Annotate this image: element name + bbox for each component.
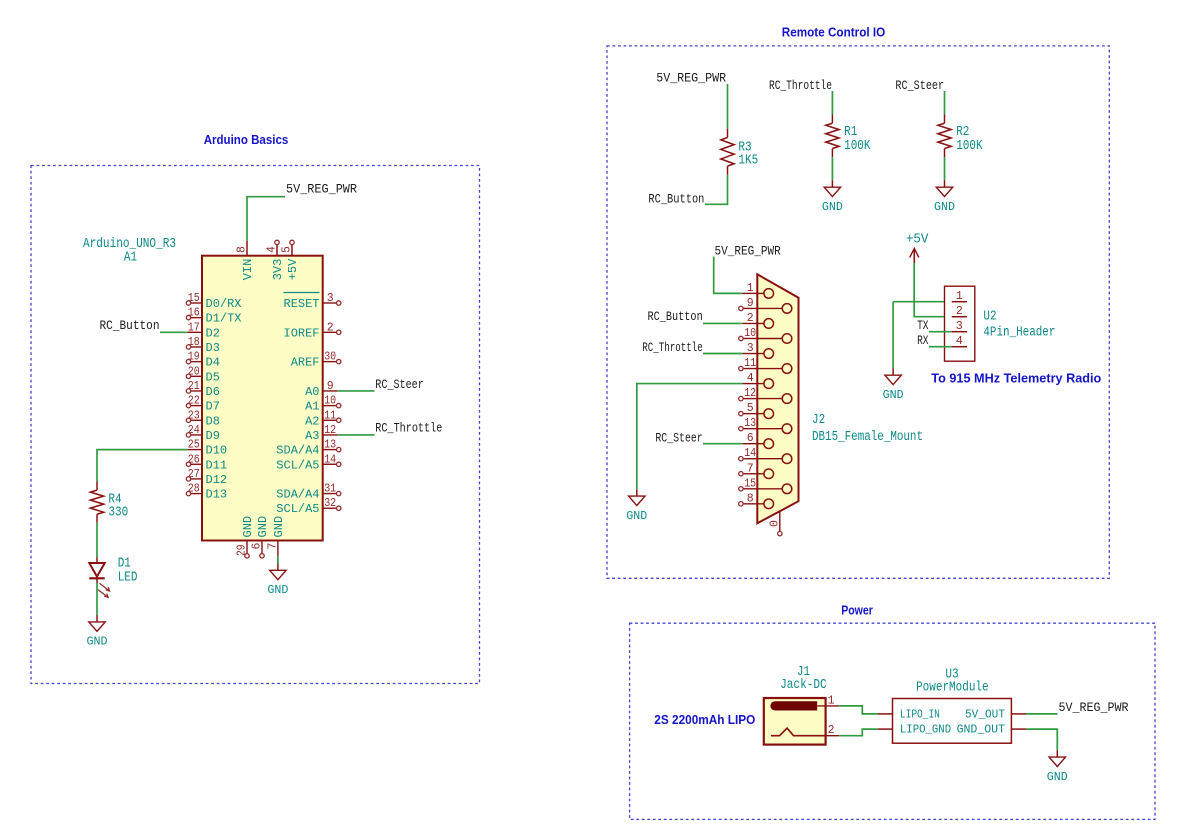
svg-text:GND: GND [934, 201, 955, 214]
svg-text:26: 26 [188, 453, 200, 466]
svg-text:3: 3 [747, 342, 754, 355]
connector J1 Jack-DC body [764, 698, 826, 745]
svg-text:Arduino Basics: Arduino Basics [204, 132, 289, 147]
svg-text:D7: D7 [206, 400, 220, 414]
power +5V symbol [906, 233, 929, 264]
ground [822, 180, 843, 214]
svg-text:+5V: +5V [906, 233, 929, 248]
svg-text:LIPO_GND: LIPO_GND [900, 723, 951, 737]
ground [1047, 750, 1068, 784]
section title: Arduino Basics [204, 132, 289, 147]
svg-text:D11: D11 [206, 458, 228, 472]
pin 9 A0 (right) [305, 380, 338, 399]
svg-text:2S 2200mAh LIPO: 2S 2200mAh LIPO [654, 712, 755, 727]
connector J2 pin 8 [739, 492, 774, 508]
svg-text:D10: D10 [206, 444, 228, 458]
module U3 value PowerModule [916, 681, 989, 696]
pin 16 D1/TX (left) [186, 307, 241, 326]
svg-text:RX: RX [917, 334, 929, 348]
svg-text:GND: GND [1047, 771, 1068, 784]
svg-text:GND: GND [87, 636, 108, 649]
pin 22 D7 (left) [186, 395, 220, 414]
pin 11 A2 (right) [305, 409, 341, 428]
svg-text:GND: GND [626, 510, 647, 523]
wire [839, 729, 878, 736]
label TX [917, 319, 929, 333]
svg-text:4: 4 [747, 372, 754, 385]
svg-text:100K: 100K [844, 139, 871, 154]
pin 20 D5 (left) [186, 365, 220, 384]
pin 12 A3 (right) [305, 424, 338, 443]
connector U2 pin 2 [952, 305, 967, 318]
connector U2 4Pin_Header body [945, 286, 975, 361]
pin 14 SCL/A5 (right) [276, 453, 341, 472]
svg-text:PowerModule: PowerModule [916, 681, 989, 696]
svg-text:2: 2 [828, 724, 835, 737]
op-amp U1 style body: Arduino A1 rectangle [202, 256, 323, 541]
wire [703, 443, 742, 445]
svg-text:DB15_Female_Mount: DB15_Female_Mount [812, 430, 923, 445]
diode D1 LED [89, 557, 109, 597]
connector J2 pin 13 [739, 417, 792, 433]
dashed group box: Arduino Basics [31, 166, 480, 684]
connector J2 value DB15_Female_Mount [812, 430, 923, 445]
label 5V_REG_PWR [1059, 701, 1129, 715]
ground [626, 489, 647, 523]
svg-text:2: 2 [747, 312, 754, 325]
svg-text:U2: U2 [983, 310, 996, 325]
svg-text:14: 14 [324, 453, 336, 466]
ground [87, 615, 108, 649]
wire [338, 390, 375, 392]
pin 32 SCL/A5 (right) [276, 497, 341, 516]
svg-text:SCL/A5: SCL/A5 [276, 502, 319, 516]
label RC_Button [648, 310, 703, 324]
svg-text:18: 18 [188, 336, 200, 349]
svg-text:6: 6 [251, 543, 264, 550]
svg-text:RC_Throttle: RC_Throttle [642, 341, 702, 355]
svg-text:IOREF: IOREF [284, 326, 320, 340]
resistor R2 [938, 115, 951, 158]
pin name VIN [241, 259, 255, 281]
pin 13 SDA/A4 (right) [276, 439, 341, 458]
connector J2 pin 12 [739, 387, 792, 403]
connector U2 pin 4 [952, 335, 967, 348]
svg-text:VIN: VIN [241, 259, 255, 281]
section title: Power [841, 603, 873, 618]
pin 24 D9 (left) [186, 424, 220, 443]
pin name 3V3 [271, 259, 285, 281]
svg-text:+5V: +5V [286, 258, 300, 280]
wire [637, 384, 743, 490]
svg-text:4Pin_Header: 4Pin_Header [983, 326, 1055, 341]
svg-text:5V_REG_PWR: 5V_REG_PWR [286, 183, 357, 197]
pin 18 D3 (left) [186, 336, 220, 355]
svg-text:GND: GND [822, 201, 843, 214]
svg-text:SDA/A4: SDA/A4 [276, 444, 319, 458]
wire [247, 197, 285, 241]
label RX [917, 334, 929, 348]
connector J1 value Jack-DC [780, 678, 827, 693]
module U3 pin LIPO_IN [878, 707, 940, 721]
svg-text:D3: D3 [206, 341, 220, 355]
svg-text:RC_Throttle: RC_Throttle [769, 79, 832, 93]
svg-text:0: 0 [768, 520, 781, 527]
svg-text:D13: D13 [206, 488, 228, 502]
svg-text:8: 8 [236, 246, 249, 253]
svg-text:1: 1 [956, 290, 963, 303]
svg-text:13: 13 [744, 417, 756, 430]
svg-text:RC_Button: RC_Button [648, 192, 704, 206]
svg-text:Remote Control IO: Remote Control IO [782, 25, 886, 40]
svg-text:330: 330 [108, 505, 128, 520]
connector J2 pin 2 [742, 312, 773, 328]
pin 29 GND (bottom) [236, 516, 256, 558]
connector J2 pin 15 [739, 477, 792, 493]
pin 28 D13 (left) [186, 483, 227, 502]
svg-text:D4: D4 [206, 356, 220, 370]
svg-text:GND: GND [883, 389, 904, 402]
svg-text:D9: D9 [206, 429, 220, 443]
wire [839, 706, 878, 714]
svg-text:LIPO_IN: LIPO_IN [900, 707, 940, 721]
wire [929, 346, 952, 348]
connector J2 shield pin 0 [768, 511, 782, 535]
svg-text:5V_REG_PWR: 5V_REG_PWR [1059, 701, 1129, 715]
svg-text:D6: D6 [206, 385, 220, 399]
svg-text:15: 15 [188, 292, 200, 305]
wire [893, 301, 952, 303]
ground [883, 368, 904, 402]
pin 6 GND (bottom) [251, 516, 271, 558]
component A1 reference designator A1 [124, 251, 137, 266]
connector J2 DB15_Female_Mount body [757, 274, 798, 523]
svg-text:22: 22 [188, 395, 200, 408]
connector J2 pin 1 [742, 282, 773, 298]
connector J2 pin 14 [739, 447, 792, 463]
svg-text:SCL/A5: SCL/A5 [276, 458, 319, 472]
svg-text:100K: 100K [956, 139, 983, 154]
wire [96, 583, 98, 615]
svg-text:31: 31 [324, 483, 336, 496]
label RC_Button [100, 319, 160, 333]
svg-text:GND: GND [256, 516, 270, 538]
pin 17 D2 (left) [187, 321, 220, 340]
resistor R3 [721, 129, 734, 175]
connector J2 pin 6 [742, 432, 773, 448]
svg-text:5: 5 [747, 402, 754, 415]
wire [944, 157, 946, 180]
svg-text:A0: A0 [305, 385, 319, 399]
svg-text:J2: J2 [812, 413, 825, 428]
svg-text:19: 19 [188, 351, 200, 364]
svg-text:29: 29 [236, 544, 249, 556]
svg-text:3: 3 [956, 320, 963, 333]
svg-text:2: 2 [956, 305, 963, 318]
svg-text:23: 23 [188, 409, 200, 422]
svg-text:A1: A1 [124, 251, 137, 266]
svg-text:4: 4 [956, 335, 963, 348]
svg-text:D1: D1 [118, 557, 131, 572]
label RC_Steer [655, 431, 702, 445]
resistor R2 value labels R2 100K [956, 125, 983, 154]
label RC_Steer [895, 79, 944, 93]
svg-text:7: 7 [266, 543, 279, 550]
svg-text:20: 20 [188, 365, 200, 378]
wire [929, 331, 952, 333]
pin 7 GND (bottom) [266, 516, 286, 556]
wire [892, 302, 894, 369]
svg-text:RC_Steer: RC_Steer [375, 378, 424, 392]
svg-text:24: 24 [188, 424, 200, 437]
svg-text:Power: Power [841, 603, 873, 618]
svg-text:D12: D12 [206, 473, 228, 487]
wire [97, 450, 187, 482]
svg-text:GND_OUT: GND_OUT [957, 723, 1005, 737]
connector J1 Jack-DC reference J1 [797, 665, 810, 680]
svg-text:14: 14 [744, 447, 756, 460]
svg-text:30: 30 [324, 351, 336, 364]
connector U2 pin 1 [952, 290, 967, 303]
svg-text:RC_Button: RC_Button [100, 319, 160, 333]
svg-text:R2: R2 [956, 125, 969, 140]
wire [705, 175, 728, 205]
svg-text:5: 5 [281, 246, 294, 253]
diode D1 labels D1 LED [118, 557, 138, 586]
svg-text:10: 10 [744, 327, 756, 340]
svg-text:A3: A3 [305, 429, 319, 443]
pin name +5V [286, 258, 300, 280]
wire [944, 91, 946, 115]
svg-text:D5: D5 [206, 370, 220, 384]
connector J2 pin 9 [739, 297, 792, 313]
svg-text:2: 2 [327, 321, 334, 334]
pin 19 D4 (left) [186, 351, 220, 370]
connector U2 reference U2 [983, 310, 996, 325]
wire [714, 257, 743, 294]
label RC_Throttle [642, 341, 702, 355]
pin 2 IOREF (right) [284, 321, 341, 340]
connector J2 reference J2 [812, 413, 825, 428]
svg-text:3: 3 [327, 292, 334, 305]
connector J2 pin 5 [739, 402, 774, 418]
svg-text:1: 1 [747, 282, 754, 295]
svg-text:D1/TX: D1/TX [206, 312, 242, 326]
svg-text:RC_Steer: RC_Steer [655, 431, 702, 445]
svg-text:5V_REG_PWR: 5V_REG_PWR [715, 245, 782, 259]
svg-text:A1: A1 [305, 400, 319, 414]
wire [727, 84, 729, 129]
ground [934, 180, 955, 214]
wire [96, 523, 98, 557]
svg-text:1K5: 1K5 [738, 153, 758, 168]
connector U2 pin 3 [952, 320, 967, 333]
svg-text:6: 6 [747, 432, 754, 445]
svg-text:D0/RX: D0/RX [206, 297, 242, 311]
note: 2S 2200mAh LIPO [654, 712, 755, 727]
svg-text:GND: GND [272, 516, 286, 538]
connector J2 pin 11 [739, 357, 792, 373]
svg-text:RC_Button: RC_Button [648, 310, 703, 324]
module U3 PowerModule body [893, 699, 1012, 744]
pin 3 RESET (right) [284, 292, 341, 311]
svg-text:4: 4 [266, 246, 279, 253]
pin 25 D10 (left) [187, 439, 227, 458]
pin 31 SDA/A4 (right) [276, 483, 341, 502]
label 5V_REG_PWR [286, 183, 357, 197]
svg-text:9: 9 [747, 297, 754, 310]
label RC_Throttle [375, 422, 442, 436]
note: To 915 MHz Telemetry Radio [931, 371, 1101, 386]
svg-text:32: 32 [324, 497, 336, 510]
module U3 pin LIPO_GND [878, 723, 951, 737]
svg-text:5V_REG_PWR: 5V_REG_PWR [656, 72, 726, 86]
label 5V_REG_PWR [715, 245, 782, 259]
pin 30 AREF (right) [291, 351, 341, 370]
svg-text:RESET: RESET [284, 297, 320, 311]
resistor R1 value labels R1 100K [844, 125, 871, 154]
wire [831, 157, 833, 180]
svg-text:GND: GND [267, 584, 288, 597]
wire [703, 322, 742, 324]
module U3 reference U3 [945, 668, 958, 683]
svg-text:13: 13 [324, 439, 336, 452]
pin 4 3V3 (top) [266, 240, 280, 256]
svg-text:R1: R1 [844, 125, 857, 140]
ground [267, 564, 288, 598]
svg-text:12: 12 [324, 424, 336, 437]
resistor R1 [826, 115, 839, 158]
resistor R3 value labels R3 1K5 [738, 140, 758, 168]
svg-text:11: 11 [324, 409, 336, 422]
svg-text:11: 11 [744, 357, 756, 370]
wire [338, 434, 375, 436]
section title: Remote Control IO [782, 25, 886, 40]
wire [1026, 713, 1057, 715]
svg-text:3V3: 3V3 [271, 259, 285, 281]
svg-text:1: 1 [828, 694, 835, 707]
component A1 Arduino_UNO_R3 reference [83, 237, 176, 252]
pin 23 D8 (left) [186, 409, 220, 428]
pin 10 A1 (right) [305, 395, 341, 414]
svg-text:RC_Throttle: RC_Throttle [375, 422, 442, 436]
svg-text:LED: LED [118, 571, 138, 586]
wire [831, 91, 833, 115]
wire [1026, 729, 1057, 750]
module U3 pin 5V_OUT [965, 707, 1026, 721]
svg-text:GND: GND [241, 516, 255, 538]
svg-text:28: 28 [188, 483, 200, 496]
svg-text:A2: A2 [305, 414, 319, 428]
svg-text:9: 9 [327, 380, 334, 393]
pin 21 D6 (left) [186, 380, 220, 399]
svg-text:12: 12 [744, 387, 756, 400]
wire [914, 263, 952, 317]
svg-text:5V_OUT: 5V_OUT [965, 707, 1005, 721]
svg-text:To 915 MHz Telemetry Radio: To 915 MHz Telemetry Radio [931, 371, 1101, 386]
pin 26 D11 (left) [186, 453, 227, 472]
svg-text:25: 25 [188, 439, 200, 452]
connector J2 pin 3 [742, 342, 773, 358]
svg-text:D8: D8 [206, 414, 220, 428]
label RC_Button [648, 192, 704, 206]
svg-text:10: 10 [324, 395, 336, 408]
label 5V_REG_PWR [656, 72, 726, 86]
pin 15 D0/RX (left) [186, 292, 241, 311]
connector U2 value 4Pin_Header [983, 326, 1055, 341]
pin 8 VIN (top) [236, 241, 249, 256]
svg-text:TX: TX [917, 319, 929, 333]
label RC_Throttle [769, 79, 832, 93]
connector J1 pin 2 [826, 724, 840, 737]
resistor R4 value labels R4 330 [108, 492, 128, 520]
svg-text:D2: D2 [206, 326, 220, 340]
connector J2 pin 4 [742, 372, 773, 388]
svg-text:16: 16 [188, 307, 200, 320]
wire [277, 556, 279, 564]
svg-text:RC_Steer: RC_Steer [895, 79, 944, 93]
svg-text:27: 27 [188, 468, 200, 481]
svg-text:AREF: AREF [291, 356, 320, 370]
resistor R4 [90, 481, 103, 522]
svg-text:21: 21 [188, 380, 200, 393]
pin 5 +5V (top) [281, 240, 295, 256]
label RC_Steer [375, 378, 424, 392]
svg-text:SDA/A4: SDA/A4 [276, 488, 319, 502]
dashed group box: Remote Control IO [607, 46, 1109, 578]
wire [703, 353, 742, 355]
connector J2 pin 10 [739, 327, 792, 343]
svg-text:Jack-DC: Jack-DC [780, 678, 827, 693]
svg-text:15: 15 [744, 477, 756, 490]
connector J1 pin 1 [817, 694, 839, 707]
dashed group box: Power [630, 623, 1155, 819]
svg-text:17: 17 [188, 321, 200, 334]
wire [160, 331, 187, 333]
pin 27 D12 (left) [186, 468, 227, 487]
svg-text:7: 7 [747, 462, 754, 475]
module U3 pin GND_OUT [957, 723, 1027, 737]
connector J2 pin 7 [739, 462, 774, 478]
svg-text:8: 8 [747, 492, 754, 505]
